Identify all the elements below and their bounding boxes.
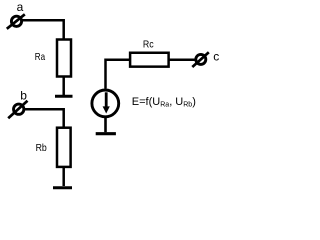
svg-text:b: b [20,88,27,102]
svg-text:Ra: Ra [35,51,45,63]
svg-text:c: c [213,50,219,64]
svg-text:Rc: Rc [143,38,154,50]
svg-text:a: a [17,0,24,14]
svg-text:Rb: Rb [36,142,47,154]
